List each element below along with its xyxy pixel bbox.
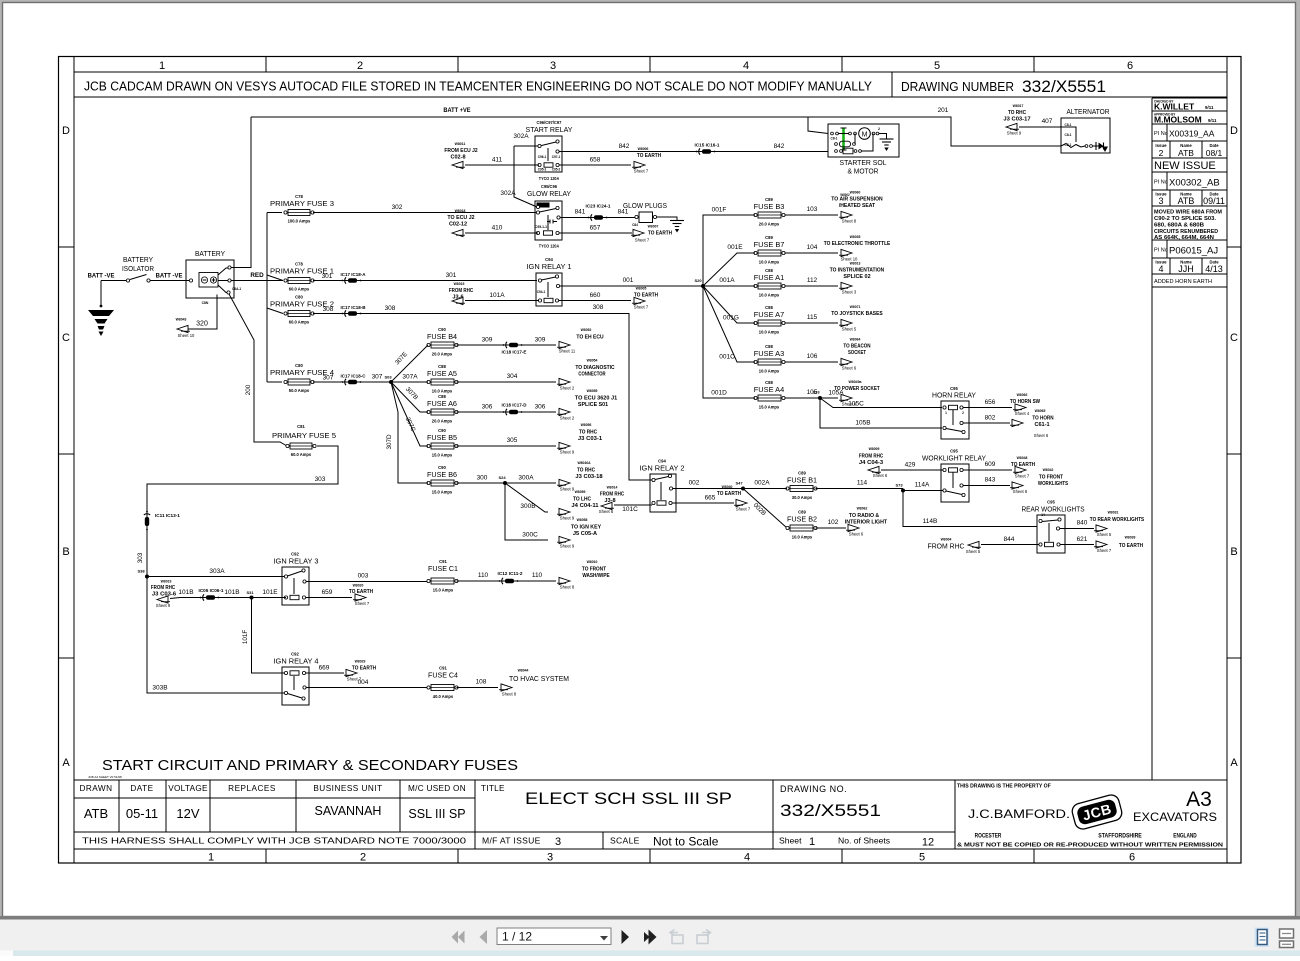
svg-text:410: 410 bbox=[492, 225, 503, 232]
svg-text:J3 C03-1: J3 C03-1 bbox=[578, 436, 602, 442]
svg-text:20.0 Amps: 20.0 Amps bbox=[432, 352, 453, 357]
svg-text:S38: S38 bbox=[137, 569, 145, 574]
svg-text:101B: 101B bbox=[178, 589, 193, 596]
top grid number row bbox=[74, 71, 1227, 73]
splice S73 bbox=[901, 489, 905, 493]
svg-text:FUSE C4: FUSE C4 bbox=[428, 671, 458, 680]
svg-text:TO IGN KEY: TO IGN KEY bbox=[571, 525, 601, 531]
svg-text:MOVED WIRE 680A FROM: MOVED WIRE 680A FROM bbox=[1154, 210, 1223, 216]
svg-text:ALTERNATOR: ALTERNATOR bbox=[1067, 107, 1110, 116]
svg-text:DATE: DATE bbox=[130, 784, 153, 793]
wire 301 bbox=[313, 280, 537, 282]
svg-text:FUSE A5: FUSE A5 bbox=[427, 369, 457, 378]
svg-text:300: 300 bbox=[477, 475, 488, 482]
svg-text:IGN RELAY 1: IGN RELAY 1 bbox=[527, 262, 572, 271]
svg-text:SSL III SP: SSL III SP bbox=[408, 807, 465, 821]
svg-text:TO EARTH: TO EARTH bbox=[352, 666, 376, 672]
svg-text:001G: 001G bbox=[723, 315, 739, 322]
svg-text:A: A bbox=[62, 757, 70, 769]
svg-text:DRAWING NUMBER: DRAWING NUMBER bbox=[901, 80, 1014, 94]
svg-text:EXCAVATORS: EXCAVATORS bbox=[1133, 812, 1217, 824]
svg-text:657: 657 bbox=[590, 225, 601, 232]
svg-text:309: 309 bbox=[535, 337, 546, 344]
svg-text:332/X5551: 332/X5551 bbox=[1022, 78, 1106, 96]
svg-text:IC17 IC18-B: IC17 IC18-B bbox=[341, 305, 366, 310]
svg-text:Sheet 9: Sheet 9 bbox=[560, 450, 575, 455]
glow plugs earth bbox=[657, 217, 678, 220]
wire 001 bbox=[560, 285, 704, 287]
svg-text:C02-8: C02-8 bbox=[450, 155, 465, 161]
svg-text:14: 14 bbox=[1041, 513, 1045, 517]
svg-text:W8058: W8058 bbox=[577, 517, 588, 522]
title block lines bbox=[74, 779, 1227, 781]
svg-text:W8044: W8044 bbox=[518, 668, 529, 673]
svg-text:200: 200 bbox=[245, 384, 252, 395]
svg-text:001: 001 bbox=[623, 277, 634, 284]
svg-text:W8035: W8035 bbox=[850, 234, 861, 239]
svg-text:001F: 001F bbox=[712, 207, 727, 214]
svg-text:No. of Sheets: No. of Sheets bbox=[838, 836, 890, 846]
wire 303A bbox=[147, 576, 284, 578]
svg-text:W8059: W8059 bbox=[575, 489, 586, 494]
svg-text:609: 609 bbox=[985, 461, 996, 468]
svg-text:IC11 IC13-1: IC11 IC13-1 bbox=[155, 513, 181, 518]
svg-text:100.0 Amps: 100.0 Amps bbox=[288, 219, 311, 224]
svg-text:JCB CADCAM DRAWN ON VESYS AUT: JCB CADCAM DRAWN ON VESYS AUTOCAD FILE S… bbox=[84, 80, 873, 94]
svg-text:2: 2 bbox=[962, 411, 964, 415]
svg-text:S20: S20 bbox=[694, 278, 702, 283]
svg-text:WASH/WIPE: WASH/WIPE bbox=[582, 573, 609, 579]
starter earth bbox=[879, 134, 887, 140]
revision issue 4 row bbox=[1169, 258, 1171, 274]
svg-text:001A: 001A bbox=[719, 277, 735, 284]
svg-text:302: 302 bbox=[392, 204, 403, 211]
revision PI No P06015_AJ bbox=[1166, 240, 1168, 258]
svg-text:002: 002 bbox=[689, 480, 700, 487]
svg-text:IC17 IC18-C: IC17 IC18-C bbox=[341, 374, 366, 379]
svg-text:60.0 Amps: 60.0 Amps bbox=[289, 320, 310, 325]
svg-text:J.C.BAMFORD.: J.C.BAMFORD. bbox=[968, 809, 1070, 821]
svg-text:306: 306 bbox=[482, 404, 493, 411]
svg-text:309: 309 bbox=[482, 337, 493, 344]
splice S31 bbox=[250, 596, 254, 600]
row letter dividers bbox=[59, 246, 75, 248]
svg-text:TO RHC: TO RHC bbox=[1008, 110, 1026, 116]
svg-text:Sheet 9: Sheet 9 bbox=[560, 544, 575, 549]
svg-text:300A: 300A bbox=[518, 475, 534, 482]
wire 669 to earth bbox=[306, 672, 344, 674]
svg-text:10.0 Amps: 10.0 Amps bbox=[759, 330, 780, 335]
svg-text:9/11: 9/11 bbox=[1205, 105, 1214, 110]
svg-text:2: 2 bbox=[1159, 148, 1164, 158]
svg-text:J3 C03-18: J3 C03-18 bbox=[575, 474, 602, 480]
svg-text:15.0 Amps: 15.0 Amps bbox=[432, 490, 453, 495]
svg-text:START RELAY: START RELAY bbox=[526, 125, 573, 134]
svg-text:IC12 IC11-2: IC12 IC11-2 bbox=[498, 571, 524, 576]
svg-text:PRIMARY FUSE 3: PRIMARY FUSE 3 bbox=[270, 199, 334, 208]
single page view icon (active) bbox=[1255, 928, 1270, 948]
nav last-page button bbox=[644, 930, 657, 945]
wire 002 bbox=[673, 488, 744, 490]
svg-text:& MOTOR: & MOTOR bbox=[848, 167, 879, 176]
battery sense wire 320 bbox=[187, 295, 217, 330]
svg-text:S31: S31 bbox=[246, 590, 254, 595]
svg-text:300B: 300B bbox=[520, 503, 535, 510]
svg-text:303A: 303A bbox=[209, 568, 225, 575]
taskbar strip bbox=[0, 951, 1300, 957]
svg-text:656: 656 bbox=[985, 399, 996, 406]
svg-text:2: 2 bbox=[360, 852, 366, 864]
svg-text:W8055: W8055 bbox=[587, 388, 598, 393]
svg-text:TITLE: TITLE bbox=[481, 784, 505, 793]
svg-text:B: B bbox=[1230, 546, 1237, 558]
svg-text:C8A-1: C8A-1 bbox=[232, 287, 241, 291]
svg-text:VOLTAGE: VOLTAGE bbox=[168, 784, 208, 793]
svg-text:ATB: ATB bbox=[1178, 148, 1194, 158]
svg-text:304: 304 bbox=[507, 373, 518, 380]
svg-text:308: 308 bbox=[593, 304, 604, 311]
svg-text:S73: S73 bbox=[895, 483, 903, 488]
svg-text:843: 843 bbox=[985, 477, 996, 484]
svg-text:J3 C03-6: J3 C03-6 bbox=[152, 592, 176, 598]
splice S24 bbox=[503, 481, 507, 485]
wire 659 to earth bbox=[306, 597, 352, 599]
svg-text:Sheet 3: Sheet 3 bbox=[842, 290, 857, 295]
svg-text:INTERIOR LIGHT: INTERIOR LIGHT bbox=[845, 520, 888, 526]
svg-text:300C: 300C bbox=[522, 532, 538, 539]
svg-text:108: 108 bbox=[476, 679, 487, 686]
connector IC11 IC13-1 bbox=[144, 511, 150, 531]
svg-text:W8015: W8015 bbox=[454, 281, 465, 286]
svg-text:C84: C84 bbox=[632, 223, 638, 227]
svg-text:TO ELECTRONIC THROTTLE: TO ELECTRONIC THROTTLE bbox=[824, 241, 891, 247]
svg-text:105A: 105A bbox=[828, 390, 844, 397]
svg-text:20.0 Amps: 20.0 Amps bbox=[759, 222, 780, 227]
svg-text:W8046A: W8046A bbox=[578, 460, 591, 465]
svg-text:05-11: 05-11 bbox=[126, 806, 158, 821]
wire 609 to earth bbox=[963, 469, 1012, 471]
svg-text:1: 1 bbox=[809, 836, 815, 848]
svg-text:CONNECTOR: CONNECTOR bbox=[578, 372, 605, 378]
svg-text:110: 110 bbox=[532, 572, 543, 579]
svg-text:C8-1: C8-1 bbox=[1065, 123, 1072, 127]
svg-text:THIS HARNESS SHALL COMPLY WITH: THIS HARNESS SHALL COMPLY WITH JCB STAND… bbox=[82, 836, 466, 846]
nav next-page button bbox=[622, 930, 630, 944]
svg-text:REPLACES: REPLACES bbox=[228, 784, 276, 793]
svg-text:ISOLATOR: ISOLATOR bbox=[122, 266, 154, 273]
svg-text:THIS DRAWING IS THE PROPERTY O: THIS DRAWING IS THE PROPERTY OF bbox=[957, 784, 1051, 790]
svg-text:60.0 Amps: 60.0 Amps bbox=[289, 287, 310, 292]
svg-text:TO REAR WORKLIGHTS: TO REAR WORKLIGHTS bbox=[1090, 517, 1145, 523]
svg-text:802: 802 bbox=[985, 415, 996, 422]
svg-text:BATTERY: BATTERY bbox=[195, 251, 225, 258]
nav first-page button (disabled) bbox=[452, 931, 465, 944]
svg-text:4: 4 bbox=[744, 852, 750, 864]
svg-text:FROM RHC: FROM RHC bbox=[859, 454, 883, 460]
svg-text:5: 5 bbox=[934, 60, 940, 72]
svg-text:FROM RHC: FROM RHC bbox=[928, 542, 965, 551]
wire 308 to ign relay 2 bbox=[313, 314, 653, 481]
svg-text:FROM ECU J2: FROM ECU J2 bbox=[444, 148, 477, 154]
svg-text:101B: 101B bbox=[224, 589, 239, 596]
svg-text:658: 658 bbox=[590, 157, 601, 164]
svg-text:W8011: W8011 bbox=[455, 141, 466, 146]
svg-text:3: 3 bbox=[547, 852, 553, 864]
svg-text:W8056: W8056 bbox=[581, 422, 592, 427]
svg-text:C61-1: C61-1 bbox=[1034, 422, 1049, 428]
svg-text:307: 307 bbox=[323, 375, 334, 382]
svg-text:307: 307 bbox=[372, 374, 383, 381]
svg-text:Sheet 6: Sheet 6 bbox=[1034, 433, 1049, 438]
svg-text:Sheet 9: Sheet 9 bbox=[560, 487, 575, 492]
svg-text:TO HVAC SYSTEM: TO HVAC SYSTEM bbox=[509, 674, 569, 683]
svg-text:J4 C04-3: J4 C04-3 bbox=[859, 460, 883, 466]
toolbar bbox=[0, 920, 1300, 951]
wire 003 bbox=[306, 581, 428, 583]
revision issue 3 row bbox=[1169, 190, 1171, 206]
svg-text:114: 114 bbox=[857, 480, 868, 487]
page bottom shadow bbox=[0, 916, 1300, 920]
svg-text:IC18 IC17-D: IC18 IC17-D bbox=[502, 403, 527, 408]
svg-text:4: 4 bbox=[743, 60, 749, 72]
svg-text:S24: S24 bbox=[498, 475, 506, 480]
svg-text:FUSE B7: FUSE B7 bbox=[754, 240, 785, 249]
svg-text:W8031: W8031 bbox=[1108, 510, 1119, 515]
svg-text:6: 6 bbox=[1129, 852, 1135, 864]
wire 842 to starter bbox=[559, 151, 828, 153]
alternator internals bbox=[1061, 144, 1085, 148]
svg-text:TO HORN SW: TO HORN SW bbox=[1010, 399, 1041, 405]
svg-text:FUSE A4: FUSE A4 bbox=[754, 385, 784, 394]
svg-text:TO JOYSTICK BASES: TO JOYSTICK BASES bbox=[831, 311, 883, 317]
svg-text:TO HORN: TO HORN bbox=[1032, 416, 1053, 422]
svg-text:W8029: W8029 bbox=[355, 659, 366, 664]
svg-text:FROM RHC: FROM RHC bbox=[600, 492, 624, 498]
svg-text:15.0 Amps: 15.0 Amps bbox=[433, 588, 454, 593]
svg-text:2: 2 bbox=[357, 60, 363, 72]
svg-text:842: 842 bbox=[774, 143, 785, 150]
svg-text:PI No: PI No bbox=[1154, 248, 1168, 254]
svg-text:C: C bbox=[62, 332, 70, 344]
svg-text:303: 303 bbox=[315, 476, 326, 483]
svg-text:307A: 307A bbox=[402, 374, 418, 381]
svg-text:NEW ISSUE: NEW ISSUE bbox=[1154, 160, 1216, 172]
svg-text:Sheet 4: Sheet 4 bbox=[1015, 411, 1030, 416]
starter green link bbox=[842, 128, 845, 150]
svg-text:621: 621 bbox=[1077, 536, 1088, 543]
svg-text:FUSE A1: FUSE A1 bbox=[754, 273, 784, 282]
svg-text:W8066: W8066 bbox=[1017, 392, 1028, 397]
svg-text:RED: RED bbox=[250, 272, 264, 279]
continuous view icon bbox=[1280, 929, 1294, 938]
svg-text:W8049a: W8049a bbox=[849, 379, 863, 384]
svg-text:TO RHC: TO RHC bbox=[579, 430, 597, 436]
battery isolator earth bbox=[100, 281, 102, 307]
svg-text:429: 429 bbox=[905, 462, 916, 469]
wire 302 bbox=[313, 212, 537, 214]
wire 303B trunk bbox=[147, 577, 284, 694]
svg-text:308: 308 bbox=[323, 306, 334, 313]
primary fuse trunk feeder bbox=[266, 213, 268, 383]
frame inner verticals (row-letter columns) bbox=[73, 57, 75, 864]
svg-text:TO ECU J2: TO ECU J2 bbox=[447, 215, 474, 221]
svg-text:TO EARTH: TO EARTH bbox=[637, 153, 661, 159]
svg-text:FUSE A7: FUSE A7 bbox=[754, 310, 784, 319]
wire 843 to front worklights bbox=[963, 485, 1010, 487]
svg-text:S47: S47 bbox=[735, 481, 743, 486]
prev view icon (disabled) bbox=[670, 930, 683, 944]
svg-text:W8009: W8009 bbox=[869, 446, 880, 451]
svg-text:Sheet 5: Sheet 5 bbox=[1097, 532, 1112, 537]
svg-text:10.0 Amps: 10.0 Amps bbox=[432, 389, 453, 394]
revision block bbox=[1151, 98, 1153, 780]
svg-text:B: B bbox=[62, 546, 69, 558]
svg-text:TO RADIO &: TO RADIO & bbox=[849, 513, 879, 519]
revision PI No X00319_AA bbox=[1166, 124, 1168, 141]
svg-text:Sheet 7: Sheet 7 bbox=[634, 305, 649, 310]
svg-text:105C: 105C bbox=[848, 401, 864, 408]
svg-text:2: 2 bbox=[878, 127, 880, 131]
svg-text:C90-2 TO SPLICE S03.: C90-2 TO SPLICE S03. bbox=[1154, 216, 1217, 222]
svg-text:M/C USED ON: M/C USED ON bbox=[408, 784, 466, 793]
next view icon (disabled) bbox=[697, 930, 711, 944]
svg-text:/HEATED SEAT: /HEATED SEAT bbox=[839, 203, 876, 209]
svg-text:TO BEACON: TO BEACON bbox=[843, 344, 870, 350]
svg-text:W8039: W8039 bbox=[1125, 535, 1136, 540]
svg-text:10.0 Amps: 10.0 Amps bbox=[759, 260, 780, 265]
svg-text:Not to Scale: Not to Scale bbox=[653, 835, 719, 849]
svg-text:101A: 101A bbox=[489, 292, 505, 299]
svg-text:SAVANNAH: SAVANNAH bbox=[315, 804, 382, 818]
svg-text:A3: A3 bbox=[1186, 788, 1212, 811]
svg-text:PI No: PI No bbox=[1154, 180, 1168, 186]
svg-text:1 / 12: 1 / 12 bbox=[502, 930, 532, 944]
wire 621 to earth bbox=[1060, 544, 1094, 546]
revision issue 2 row bbox=[1169, 141, 1171, 158]
svg-text:FUSE B4: FUSE B4 bbox=[427, 332, 457, 341]
svg-text:407: 407 bbox=[1042, 118, 1053, 125]
svg-text:W8042: W8042 bbox=[1043, 467, 1054, 472]
svg-text:S03: S03 bbox=[384, 375, 392, 380]
svg-text:40.0 Amps: 40.0 Amps bbox=[433, 694, 454, 699]
svg-text:001E: 001E bbox=[727, 244, 743, 251]
svg-text:665: 665 bbox=[705, 495, 716, 502]
svg-text:Sheet 7: Sheet 7 bbox=[635, 238, 650, 243]
svg-text:TO EARTH: TO EARTH bbox=[717, 491, 741, 497]
wire 657 to earth bbox=[559, 232, 632, 234]
svg-text:J3 C03-17: J3 C03-17 bbox=[1003, 117, 1030, 123]
svg-text:Sheet 10: Sheet 10 bbox=[178, 333, 195, 338]
svg-text:BATTERY: BATTERY bbox=[123, 257, 153, 264]
wire 300C bbox=[505, 483, 548, 540]
svg-text:FUSE B1: FUSE B1 bbox=[787, 476, 817, 485]
svg-text:X00319_AA: X00319_AA bbox=[1169, 129, 1215, 139]
svg-text:3: 3 bbox=[550, 60, 556, 72]
svg-text:C81: C81 bbox=[297, 424, 305, 429]
svg-text:115: 115 bbox=[807, 314, 818, 321]
svg-text:50.0 Amps: 50.0 Amps bbox=[289, 388, 310, 393]
svg-text:TO EARTH: TO EARTH bbox=[349, 589, 373, 595]
svg-text:C95-1-1: C95-1-1 bbox=[535, 225, 547, 229]
svg-text:W8048: W8048 bbox=[1017, 455, 1028, 460]
svg-text:001D: 001D bbox=[711, 390, 727, 397]
svg-text:IGN RELAY 3: IGN RELAY 3 bbox=[274, 557, 319, 566]
svg-text:FUSE B6: FUSE B6 bbox=[427, 470, 457, 479]
svg-text:C94-1: C94-1 bbox=[537, 290, 546, 294]
svg-text:08/1: 08/1 bbox=[1206, 148, 1223, 158]
nav prev-page button (disabled) bbox=[480, 930, 488, 944]
svg-text:TO ECU 3620 J1: TO ECU 3620 J1 bbox=[575, 396, 617, 402]
svg-text:C95-1: C95-1 bbox=[538, 168, 547, 172]
svg-text:ROCESTER: ROCESTER bbox=[975, 833, 1002, 840]
svg-text:Sheet 6: Sheet 6 bbox=[599, 509, 614, 514]
page combo box bbox=[497, 928, 611, 945]
svg-text:Sheet 9: Sheet 9 bbox=[156, 603, 171, 608]
svg-text:842: 842 bbox=[619, 143, 630, 150]
svg-text:IC18 IC17-E: IC18 IC17-E bbox=[502, 350, 527, 355]
svg-text:301: 301 bbox=[446, 272, 457, 279]
svg-text:112: 112 bbox=[807, 277, 818, 284]
svg-text:C8-1: C8-1 bbox=[1065, 133, 1072, 137]
wire 802 to horn bbox=[963, 422, 1010, 424]
svg-text:Sheet 8: Sheet 8 bbox=[560, 585, 575, 590]
svg-text:W8054: W8054 bbox=[587, 358, 598, 363]
svg-text:BATT +VE: BATT +VE bbox=[443, 107, 470, 114]
svg-text:ELECT SCH SSL III SP: ELECT SCH SSL III SP bbox=[525, 789, 732, 808]
svg-text:W8013: W8013 bbox=[850, 261, 861, 266]
svg-text:15.0 Amps: 15.0 Amps bbox=[759, 405, 780, 410]
svg-text:Sheet: Sheet bbox=[779, 836, 802, 846]
svg-text:TO EARTH: TO EARTH bbox=[634, 293, 658, 299]
wire 660 to earth bbox=[559, 300, 632, 302]
svg-text:Sheet 9: Sheet 9 bbox=[1007, 131, 1022, 136]
svg-text:TO RHC: TO RHC bbox=[577, 468, 595, 474]
svg-text:669: 669 bbox=[319, 665, 330, 672]
svg-text:102: 102 bbox=[828, 519, 839, 526]
svg-text:101F: 101F bbox=[242, 630, 249, 645]
svg-text:D: D bbox=[62, 125, 70, 137]
wire 841 to glow plugs bbox=[561, 217, 636, 219]
starter sol and motor bbox=[828, 124, 899, 157]
svg-text:003: 003 bbox=[358, 573, 369, 580]
svg-text:JCB A4 SHEET V0 51/98: JCB A4 SHEET V0 51/98 bbox=[88, 775, 122, 779]
svg-text:DRAWING NO.: DRAWING NO. bbox=[780, 784, 847, 794]
svg-text:C8-1: C8-1 bbox=[831, 137, 838, 141]
svg-text:& MUST NOT BE COPIED OR RE-PRO: & MUST NOT BE COPIED OR RE-PRODUCED WITH… bbox=[957, 843, 1223, 849]
svg-text:12: 12 bbox=[922, 837, 934, 849]
svg-text:C97-1: C97-1 bbox=[552, 155, 561, 159]
svg-text:X00302_AB: X00302_AB bbox=[1169, 178, 1220, 189]
svg-text:TO EARTH: TO EARTH bbox=[1119, 543, 1143, 549]
svg-text:Sheet 7: Sheet 7 bbox=[736, 507, 751, 512]
svg-text:4/13: 4/13 bbox=[1205, 264, 1223, 274]
svg-text:W8020: W8020 bbox=[353, 583, 364, 588]
svg-text:TO DIAGNOSTIC: TO DIAGNOSTIC bbox=[575, 365, 614, 371]
svg-text:W8052: W8052 bbox=[581, 327, 592, 332]
wire starter feed drop bbox=[808, 117, 828, 134]
wire 101F bbox=[252, 598, 285, 674]
svg-text:W8043: W8043 bbox=[176, 317, 187, 322]
svg-text:Sheet 9: Sheet 9 bbox=[560, 516, 575, 521]
svg-text:W8060: W8060 bbox=[850, 190, 861, 195]
wire 105C to horn relay bbox=[820, 398, 942, 408]
svg-text:TYCO 120A: TYCO 120A bbox=[539, 244, 559, 249]
wire 656 to horn sw bbox=[963, 407, 1012, 409]
header bar bottom bbox=[74, 96, 1227, 98]
svg-text:PRIMARY FUSE 5: PRIMARY FUSE 5 bbox=[272, 431, 336, 440]
svg-text:332/X5551: 332/X5551 bbox=[780, 801, 881, 820]
splice S33 bbox=[818, 396, 822, 400]
